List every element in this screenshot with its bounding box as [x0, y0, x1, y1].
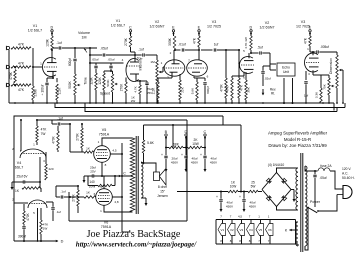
- potentiometer Dimension: [336, 55, 343, 103]
- wire trem top: [89, 54, 102, 56]
- svg-text:C: C: [123, 172, 126, 176]
- svg-text:140: 140: [89, 180, 95, 184]
- svg-text:47K: 47K: [240, 84, 244, 91]
- svg-text:V3: V3: [212, 20, 216, 24]
- wire box bottom: [69, 220, 187, 222]
- wire: [305, 208, 308, 251]
- svg-text:+: +: [200, 153, 202, 157]
- ground: [11, 182, 14, 190]
- svg-text:V2: V2: [230, 228, 234, 232]
- wire cathode V1b: [136, 74, 147, 82]
- svg-text:V4: V4: [17, 161, 21, 165]
- resistor 270K V1b: [119, 78, 127, 104]
- tube V4 triode B: [28, 200, 47, 208]
- svg-text:470K: 470K: [9, 71, 13, 80]
- wire speaker top: [141, 162, 156, 172]
- plug: [337, 186, 352, 199]
- svg-text:800pf: 800pf: [68, 58, 72, 66]
- node C2: [203, 130, 206, 140]
- label Dimension: [329, 58, 333, 74]
- svg-text:270K: 270K: [124, 37, 128, 46]
- svg-text:Tone: Tone: [84, 77, 88, 85]
- svg-text:5.6K: 5.6K: [147, 141, 155, 145]
- resistor R5 5.6M: [32, 67, 38, 103]
- switch Power: [307, 195, 337, 213]
- resistor R3 47K: [11, 84, 31, 92]
- wire: [319, 52, 337, 55]
- svg-text:Drawn by: Joe Piazza 7/31/99: Drawn by: Joe Piazza 7/31/99: [268, 143, 327, 148]
- resistor 300K plate V2a: [168, 36, 176, 48]
- svg-text:1W: 1W: [43, 227, 48, 231]
- svg-text:http://www.servtech.com/~piazz: http://www.servtech.com/~piazza/joepage/: [76, 241, 197, 249]
- wire plate V5: [102, 138, 133, 146]
- resistor 140 ohm 10W: [88, 176, 115, 189]
- wire rail 5: [37, 119, 187, 121]
- ground: [291, 190, 296, 203]
- resistor 25 5W: [238, 181, 262, 193]
- svg-text:Unit: Unit: [283, 70, 289, 74]
- resistor 68K filter: [169, 143, 183, 149]
- capacitor .1uf V6 in: [56, 186, 78, 199]
- wire ground rail: [9, 102, 344, 104]
- ground: [83, 176, 89, 183]
- resistor 1K V6 grid: [70, 191, 96, 199]
- wire: [12, 198, 35, 216]
- wire rail 2: [55, 103, 345, 111]
- tube V5: [94, 146, 111, 163]
- capacitor .05uf trem right: [108, 58, 115, 72]
- node K: [285, 229, 296, 233]
- capacitor 40uf 450V psA: [216, 192, 234, 209]
- wire plate V1a lead: [51, 49, 53, 63]
- svg-text:1uf: 1uf: [214, 43, 219, 47]
- svg-text:+: +: [161, 153, 163, 157]
- svg-text:.1uf: .1uf: [56, 210, 61, 214]
- svg-text:(4) 1N4410: (4) 1N4410: [268, 163, 285, 167]
- svg-text:.01uf: .01uf: [178, 43, 185, 47]
- capacitor .02uf echo: [261, 66, 271, 86]
- capacitor 25uf 6V: [12, 175, 41, 184]
- svg-text:+: +: [181, 153, 183, 157]
- bridge: [262, 173, 291, 207]
- svg-text:270K: 270K: [75, 132, 79, 140]
- tube V3 triode A: [187, 60, 208, 76]
- label diodes: [268, 163, 285, 167]
- capacitor 40uf 450V psB: [239, 192, 257, 209]
- svg-text:.05uf: .05uf: [108, 58, 115, 62]
- wire: [216, 220, 296, 245]
- svg-text:V1: V1: [221, 228, 225, 232]
- svg-text:1M: 1M: [150, 60, 155, 64]
- resistor 1K V5 grid: [70, 124, 94, 153]
- transformer T1 core: [136, 136, 138, 214]
- svg-text:1/2 6SN7: 1/2 6SN7: [150, 25, 165, 29]
- input jack J2: [6, 65, 9, 69]
- resistor 47K interstage: [238, 49, 244, 103]
- heater V6: [266, 215, 274, 245]
- svg-text:5.6M: 5.6M: [34, 89, 38, 97]
- wire plate V3b lead: [310, 51, 314, 55]
- svg-text:V6: V6: [268, 228, 272, 232]
- svg-text:450V: 450V: [249, 205, 257, 209]
- svg-text:+ 100uf: + 100uf: [40, 85, 44, 96]
- resistor 47K plate V3b: [303, 36, 311, 52]
- wire rail 6: [144, 124, 242, 126]
- resistor 2.2K V2 cathode: [151, 72, 172, 103]
- wire screen rail: [101, 175, 130, 177]
- svg-text:Speed: Speed: [100, 92, 110, 96]
- svg-text:7W: 7W: [41, 132, 46, 136]
- node C: [129, 26, 132, 36]
- capacitor 1uf V3b: [304, 71, 308, 103]
- label title block: [268, 131, 328, 149]
- svg-text:47K: 47K: [18, 62, 25, 66]
- svg-text:470K: 470K: [219, 83, 223, 91]
- svg-text:.05uf: .05uf: [92, 58, 99, 62]
- svg-text:.1uf: .1uf: [60, 190, 65, 194]
- svg-text:39K: 39K: [247, 86, 251, 92]
- svg-text:Joe Piazza's BackStage: Joe Piazza's BackStage: [87, 229, 181, 240]
- svg-text:300K: 300K: [168, 37, 172, 46]
- wire plate V2b lead: [249, 50, 259, 58]
- resistor 5.6K V3a cathode: [190, 76, 198, 103]
- svg-text:120K: 120K: [98, 76, 102, 84]
- resistor 470K V4b: [23, 204, 30, 224]
- wire: [262, 78, 294, 104]
- svg-text:450V: 450V: [226, 205, 234, 209]
- svg-text:Dimension: Dimension: [329, 58, 333, 74]
- svg-text:.1uf: .1uf: [56, 41, 62, 45]
- resistor 2.2K cathode: [56, 84, 62, 103]
- wire plate V4a: [36, 142, 38, 145]
- wire: [201, 49, 213, 51]
- svg-text:1/2 6SL7: 1/2 6SL7: [28, 29, 42, 33]
- wire plate V1b lead: [134, 55, 136, 62]
- wire: [62, 47, 97, 49]
- wire trem mid: [89, 58, 124, 64]
- diode D2: [282, 178, 287, 183]
- pin 6: [94, 192, 96, 196]
- svg-text:120 V.: 120 V.: [342, 167, 351, 171]
- tube V2 triode B: [240, 57, 254, 74]
- wire plate V4b: [40, 188, 41, 192]
- svg-text:1/2 6SL7: 1/2 6SL7: [111, 24, 125, 28]
- heater V1: [218, 215, 226, 245]
- svg-text:120K: 120K: [89, 76, 93, 84]
- svg-text:.005uf: .005uf: [320, 45, 329, 49]
- resistor 10K V2: [179, 74, 185, 103]
- node D3: [184, 130, 187, 140]
- resistor 2K 10W filter: [188, 138, 202, 149]
- svg-text:7591A: 7591A: [99, 133, 110, 137]
- capacitor 800pf: [68, 48, 77, 66]
- svg-text:50-60 H.: 50-60 H.: [342, 176, 355, 180]
- svg-text:4.7K 3W: 4.7K 3W: [244, 37, 248, 49]
- transformer T2 HV secondary: [296, 168, 298, 210]
- label Intensity: [139, 57, 143, 70]
- capacitor .1uf coupling: [56, 41, 62, 50]
- speaker: [154, 169, 167, 186]
- resistor 470K interstage: [219, 49, 227, 103]
- wire screen V6: [112, 186, 123, 199]
- capacitor .05uf line: [313, 171, 326, 207]
- label url: [76, 241, 197, 249]
- resistor 47K 1W V4b: [40, 208, 49, 241]
- node C arrow: [119, 172, 126, 178]
- svg-text:C: C: [203, 130, 206, 134]
- svg-text:.02uf: .02uf: [264, 77, 271, 81]
- svg-text:2W: 2W: [131, 99, 136, 103]
- potentiometer Volume 1M: [74, 47, 87, 53]
- capacitor 1uf: [214, 43, 219, 52]
- label V5: [99, 128, 110, 137]
- wire: [165, 139, 206, 155]
- wire: [277, 168, 297, 173]
- resistor 1K V4 cathode: [15, 182, 40, 193]
- resistor 270K plate V1b: [124, 36, 136, 56]
- capacitor .1uf V1b out: [138, 48, 144, 57]
- wire: [159, 67, 165, 72]
- resistor 47K V2b cathode: [225, 72, 244, 103]
- potentiometer Intensity 1M: [150, 60, 162, 103]
- transformer T2 heater winding: [296, 222, 298, 246]
- svg-text:8 ohm: 8 ohm: [158, 185, 167, 189]
- diode D1: [266, 178, 271, 183]
- wire plate V6: [104, 205, 133, 212]
- echo unit box: [277, 63, 295, 76]
- svg-text:V3: V3: [301, 20, 305, 24]
- svg-text:Model R-15-R: Model R-15-R: [284, 137, 311, 142]
- resistor R4 470K: [9, 70, 16, 84]
- svg-text:4,8: 4,8: [114, 200, 119, 204]
- svg-text:2.2K: 2.2K: [151, 87, 155, 94]
- svg-text:47K: 47K: [192, 37, 196, 44]
- wire: [20, 119, 22, 151]
- svg-text:V1: V1: [33, 24, 37, 28]
- resistor 3.3K V3b: [314, 75, 322, 103]
- svg-text:22K: 22K: [181, 86, 185, 92]
- resistor 47K 7W: [36, 119, 47, 142]
- transformer T2 core: [301, 153, 303, 252]
- resistor 470K V5 grid: [51, 126, 59, 152]
- wire box left: [68, 192, 70, 221]
- svg-text:450V: 450V: [210, 161, 218, 165]
- svg-text:10W: 10W: [192, 142, 199, 146]
- capacitor 800pf V3a: [197, 78, 210, 103]
- capacitor .005uf: [313, 45, 329, 54]
- input jack J1: [6, 46, 9, 50]
- svg-text:47K: 47K: [41, 128, 48, 132]
- label Rev: [270, 88, 276, 96]
- wire OT center tap: [130, 175, 133, 177]
- wire screen V5: [110, 143, 130, 232]
- resistor 220 ohm: [43, 159, 54, 180]
- svg-text:25V: 25V: [90, 170, 96, 174]
- input jack J3: [6, 83, 9, 87]
- label Power: [310, 200, 321, 204]
- wire heater bottom rail: [216, 243, 296, 245]
- resistor 1K 10W: [228, 181, 238, 193]
- label main title: [87, 229, 181, 240]
- heater V3: [237, 215, 245, 245]
- pin 1: [307, 47, 310, 76]
- wire plate V3a lead: [198, 47, 200, 60]
- svg-text:D: D: [61, 240, 64, 244]
- svg-text:1/2 6SN7: 1/2 6SN7: [260, 26, 275, 30]
- svg-text:D: D: [184, 130, 187, 134]
- wire: [277, 207, 297, 211]
- label speaker: [157, 185, 168, 198]
- potentiometer Speed 500K: [106, 71, 118, 103]
- svg-text:270K: 270K: [119, 83, 123, 91]
- ground: [220, 206, 223, 212]
- svg-text:V5: V5: [259, 228, 263, 232]
- svg-text:V5: V5: [102, 128, 106, 132]
- wire heater top rail: [216, 219, 296, 221]
- wire cathode V6: [103, 176, 105, 189]
- svg-text:470K: 470K: [51, 135, 55, 143]
- svg-text:Volume: Volume: [78, 31, 90, 35]
- resistor 120K plate V1a: [45, 36, 53, 50]
- wire: [175, 49, 181, 51]
- svg-text:+: +: [216, 195, 218, 199]
- transformer T1 secondary: [141, 162, 143, 198]
- label V4: [15, 161, 23, 170]
- svg-text:.1uf: .1uf: [138, 48, 144, 52]
- wire box right: [186, 120, 188, 221]
- wire cathode V4a: [39, 157, 41, 182]
- ground: [204, 159, 207, 172]
- wire: [89, 47, 91, 103]
- svg-text:47K: 47K: [18, 88, 25, 92]
- svg-text:1/2 7025: 1/2 7025: [207, 25, 221, 29]
- wire cathode V4b: [37, 208, 39, 242]
- svg-text:270K: 270K: [71, 193, 75, 201]
- svg-text:450V: 450V: [171, 161, 179, 165]
- pin 48: [114, 200, 119, 204]
- wire: [296, 222, 299, 246]
- svg-text:4,5: 4,5: [112, 149, 117, 153]
- resistor R1 47K: [11, 43, 31, 50]
- capacitor 20uf 450V: [161, 153, 179, 165]
- heater V2: [228, 215, 236, 245]
- svg-text:5.6K: 5.6K: [190, 87, 194, 94]
- svg-text:.1uf: .1uf: [57, 117, 62, 121]
- svg-text:C: C: [129, 26, 132, 30]
- label Speed: [100, 92, 110, 96]
- svg-text:.5uf: .5uf: [257, 46, 263, 50]
- svg-text:A.C.: A.C.: [342, 172, 348, 176]
- transformer T1 primary: [130, 138, 135, 212]
- svg-text:.05uf: .05uf: [319, 176, 326, 180]
- tube V3 triode B: [305, 53, 319, 72]
- node E2: [198, 26, 201, 36]
- label V2b: [260, 21, 275, 30]
- svg-text:5W: 5W: [251, 185, 256, 189]
- wire: [135, 55, 157, 60]
- svg-text:3.3K: 3.3K: [314, 91, 318, 98]
- capacitor .5uf: [257, 46, 263, 55]
- svg-text:+: +: [239, 195, 241, 199]
- pin 2: [161, 51, 172, 80]
- svg-text:2.2K: 2.2K: [58, 87, 62, 94]
- heater V5: [256, 215, 264, 245]
- svg-text:Ampeg SuperReverb Amplifier: Ampeg SuperReverb Amplifier: [268, 131, 328, 136]
- svg-text:Rt.: Rt.: [271, 92, 275, 96]
- node D2: [249, 26, 252, 36]
- wire: [262, 53, 270, 64]
- wire feedback tap: [0, 0, 1, 1]
- capacitor .01uf: [178, 43, 185, 52]
- node B: [165, 130, 168, 140]
- ground: [185, 159, 188, 172]
- node E3: [309, 26, 312, 36]
- heater V4: [247, 215, 255, 245]
- svg-text:Echo: Echo: [282, 66, 290, 70]
- transformer T2 primary: [305, 166, 307, 246]
- diode D3: [266, 196, 271, 201]
- svg-text:.05uf: .05uf: [100, 47, 107, 51]
- label V2: [150, 20, 165, 29]
- svg-text:D: D: [50, 26, 53, 30]
- ground: [243, 206, 246, 212]
- capacitor .05uf trem left: [92, 58, 99, 74]
- capacitor 390pf: [18, 224, 26, 241]
- label Volume: [78, 31, 90, 40]
- node D arrow: [54, 240, 64, 244]
- pin 8: [105, 163, 107, 167]
- svg-text:Power: Power: [310, 200, 321, 204]
- label V1b: [111, 19, 125, 28]
- tube V1 triode B: [126, 56, 140, 82]
- svg-text:Intensity: Intensity: [139, 57, 143, 70]
- svg-text:25uf 6V: 25uf 6V: [17, 175, 29, 179]
- pin 5: [238, 49, 245, 80]
- fuse 2A: [318, 164, 332, 171]
- svg-text:1M: 1M: [82, 36, 87, 40]
- resistor R2 47K: [11, 62, 31, 69]
- svg-text:V2: V2: [155, 20, 159, 24]
- capacitor .1uf V5 in: [52, 117, 71, 126]
- node E1: [172, 26, 175, 36]
- label Tone: [84, 77, 88, 85]
- wire rail 3: [85, 103, 337, 112]
- wire fuse line: [305, 166, 318, 172]
- svg-text:V3: V3: [240, 228, 244, 232]
- svg-text:V1: V1: [116, 19, 120, 23]
- wire speaker bottom: [141, 198, 148, 206]
- wire: [21, 187, 23, 189]
- wire cathode V5: [101, 162, 103, 176]
- resistor 120K trem 2: [98, 70, 113, 103]
- tube V6: [96, 189, 113, 206]
- svg-text:47K: 47K: [18, 43, 25, 47]
- svg-text:47K: 47K: [303, 37, 307, 44]
- tube V1 triode A: [43, 58, 57, 77]
- wire jack ground: [8, 50, 10, 103]
- svg-text:75K: 75K: [322, 83, 326, 89]
- wire: [270, 64, 276, 70]
- label V6: [101, 221, 112, 230]
- label V1: [28, 24, 42, 33]
- resistor 120K trem 1: [89, 73, 97, 103]
- resistor 270K V5: [75, 123, 83, 152]
- svg-text:V4: V4: [249, 228, 253, 232]
- resistor 39K V2b: [245, 72, 251, 103]
- wire: [217, 49, 240, 51]
- diode D4: [282, 196, 287, 201]
- svg-text:800pf: 800pf: [206, 86, 210, 94]
